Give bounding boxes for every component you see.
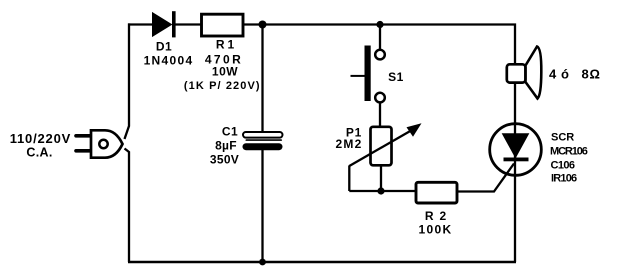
plug body xyxy=(91,130,123,157)
plug pilot circle xyxy=(99,140,107,148)
resistor R2 body xyxy=(416,182,457,203)
node junction dot bottom (C1 to bottom rail) xyxy=(259,259,266,266)
wire D1 cathode to R1 xyxy=(176,23,203,25)
diode D1 triangle xyxy=(153,13,172,36)
wire top rail R1 to top-right corner and right rail down xyxy=(243,23,515,262)
plug prong lower xyxy=(76,149,91,153)
svg-text:(1K P/ 220V): (1K P/ 220V) xyxy=(184,80,261,92)
node junction dot P1 bottom xyxy=(377,187,384,194)
svg-text:C106: C106 xyxy=(551,160,575,172)
svg-text:MCR106: MCR106 xyxy=(550,146,588,158)
wire P1 wiper drop and bottom node to R2 xyxy=(349,166,416,192)
node junction dot top (S1 tap) xyxy=(376,21,383,28)
svg-text:110/220V: 110/220V xyxy=(10,131,71,146)
svg-text:SCR: SCR xyxy=(551,132,574,144)
svg-text:S1: S1 xyxy=(388,70,404,84)
capacitor C1 middle thin line xyxy=(246,139,283,141)
wire R2 to SCR gate xyxy=(457,164,515,192)
capacitor C1 bottom plate (solid) xyxy=(243,143,283,150)
switch S1 bottom terminal circle xyxy=(375,93,385,103)
switch S1 actuator bar xyxy=(365,46,371,102)
wire C1 branch lower xyxy=(261,149,263,262)
node junction dot top (C1 tap) xyxy=(259,21,267,29)
svg-text:350V: 350V xyxy=(210,153,239,167)
svg-text:100K: 100K xyxy=(419,223,453,237)
svg-text:IR106: IR106 xyxy=(551,173,577,185)
wire bottom rail xyxy=(128,261,516,263)
SCR U1 cathode bar xyxy=(504,158,529,162)
wire left rail upper (top corner down to plug) xyxy=(125,23,130,139)
switch S1 top terminal circle xyxy=(375,50,385,60)
speaker LS1 driver box xyxy=(507,64,526,82)
potentiometer P1 arrow shaft xyxy=(349,130,412,166)
SCR U1 body circle xyxy=(490,124,542,176)
wire P1 bottom lead xyxy=(380,166,382,192)
wire C1 branch upper xyxy=(261,25,263,135)
svg-text:R2: R2 xyxy=(425,209,452,223)
plug prong upper xyxy=(76,134,91,138)
svg-text:2M2: 2M2 xyxy=(336,137,363,151)
speaker LS1 horn xyxy=(526,47,542,99)
wire S1 top lead xyxy=(379,25,381,52)
potentiometer P1 body xyxy=(371,127,392,166)
svg-text:1N4004: 1N4004 xyxy=(144,54,194,68)
svg-text:10W: 10W xyxy=(212,65,238,79)
diode D1 cathode bar xyxy=(172,11,176,37)
svg-text:C.A.: C.A. xyxy=(26,146,52,160)
resistor R1 body xyxy=(202,14,244,36)
SCR U1 anode triangle xyxy=(503,134,529,158)
switch S1 actuator stem xyxy=(351,75,365,77)
wire left rail lower (plug down to bottom corner) xyxy=(125,149,130,263)
svg-text:D1: D1 xyxy=(156,40,172,54)
svg-text:8µF: 8µF xyxy=(215,139,237,153)
svg-text:R1: R1 xyxy=(216,38,237,52)
svg-text:C1: C1 xyxy=(222,125,238,139)
potentiometer P1 arrow head xyxy=(407,123,422,137)
capacitor C1 top plate (hollow) xyxy=(243,132,283,138)
wire top-left horizontal (node A to D1 anode) xyxy=(128,23,154,25)
wire S1 bottom lead to P1 xyxy=(379,102,381,127)
